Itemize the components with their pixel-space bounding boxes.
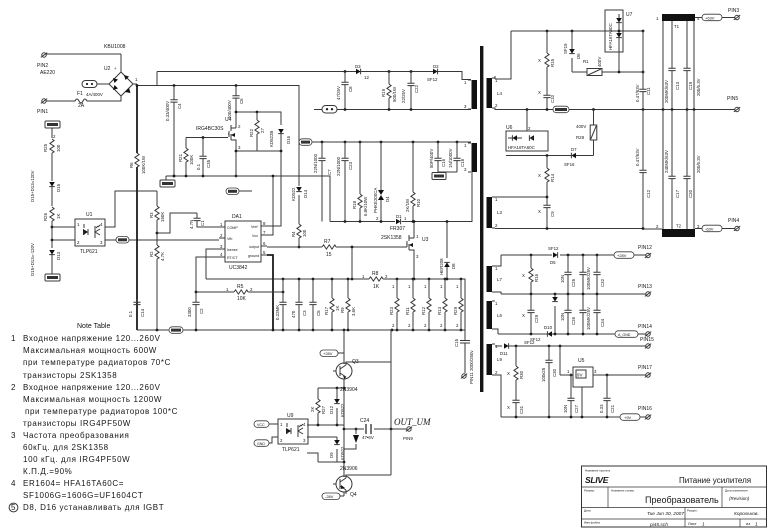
svg-text:HFA16TA60C: HFA16TA60C xyxy=(508,145,535,150)
svg-text:D6: D6 xyxy=(576,53,581,59)
svg-text:R3: R3 xyxy=(149,212,154,218)
svg-text:R4: R4 xyxy=(291,231,296,237)
svg-text:3: 3 xyxy=(11,431,16,440)
svg-text:C30: C30 xyxy=(552,368,557,377)
svg-text:GND: GND xyxy=(257,442,265,446)
wire rail y221 xyxy=(330,172,472,223)
resistor R5 xyxy=(195,284,285,302)
svg-text:1K: 1K xyxy=(373,284,380,290)
svg-text:VCC: VCC xyxy=(257,423,265,427)
svg-text:+: + xyxy=(114,66,117,71)
svg-text:D5: D5 xyxy=(550,260,556,265)
capacitor C13 xyxy=(664,21,680,110)
node VCC oval xyxy=(254,421,278,428)
svg-text:R14: R14 xyxy=(550,173,555,182)
svg-text:R27: R27 xyxy=(321,405,326,414)
wire rail y279 xyxy=(383,278,465,330)
svg-text:U4: U4 xyxy=(225,117,232,123)
capacitor C9 xyxy=(495,196,555,229)
svg-text:X: X xyxy=(538,173,541,178)
svg-text:100: 100 xyxy=(302,229,307,237)
svg-text:+9V: +9V xyxy=(624,415,632,420)
resistor R29 xyxy=(453,279,463,330)
svg-text:4A/400V: 4A/400V xyxy=(86,92,103,97)
svg-text:D8, D16 устанавливать для IGBT: D8, D16 устанавливать для IGBT xyxy=(23,503,164,512)
node PIN2 xyxy=(37,53,55,76)
svg-text:D1: D1 xyxy=(396,214,402,219)
capacitor C16 xyxy=(429,142,446,172)
diode D9 KD522 xyxy=(307,437,345,462)
node A_GND oval xyxy=(615,331,638,338)
svg-text:Название схемы: Название схемы xyxy=(611,489,634,493)
wire rail y72 xyxy=(157,70,471,86)
svg-text:Входное напряжение 120...260V: Входное напряжение 120...260V xyxy=(23,383,161,392)
svg-text:при температуре радиаторов 100: при температуре радиаторов 100*C xyxy=(25,407,178,416)
svg-text:9V: 9V xyxy=(577,373,582,378)
svg-text:R29: R29 xyxy=(453,306,458,315)
capacitor C32 xyxy=(593,255,605,294)
svg-text:C2: C2 xyxy=(199,308,204,314)
svg-text:R13: R13 xyxy=(437,306,442,315)
svg-text:0.1: 0.1 xyxy=(128,310,133,317)
node PIN4 xyxy=(643,218,740,232)
diode D10 SF12 xyxy=(530,325,553,342)
svg-text:TLP621: TLP621 xyxy=(80,249,98,255)
capacitor C2 xyxy=(187,292,204,330)
svg-text:R10: R10 xyxy=(416,198,421,207)
svg-text:PIN11 2000/250v: PIN11 2000/250v xyxy=(469,350,474,384)
svg-text:PIN4: PIN4 xyxy=(728,218,739,224)
resistor R6 xyxy=(129,153,146,174)
svg-text:22/25V: 22/25V xyxy=(401,89,406,103)
svg-text:L4: L4 xyxy=(497,91,502,96)
svg-text:C34: C34 xyxy=(600,318,605,327)
winding L6 xyxy=(487,301,503,329)
transformer core xyxy=(480,46,483,392)
capacitor C5 xyxy=(309,280,321,330)
capacitor C4 xyxy=(165,86,182,177)
svg-text:транзисторы 2SK1358: транзисторы 2SK1358 xyxy=(23,371,117,380)
svg-text:3300: 3300 xyxy=(187,307,192,317)
svg-text:SF1006G=1606G=UF1604CT: SF1006G=1606G=UF1604CT xyxy=(23,491,143,500)
resistor R19 xyxy=(381,72,397,111)
node PIN3 xyxy=(695,8,740,21)
svg-text:2: 2 xyxy=(11,383,16,392)
svg-text:PIN9: PIN9 xyxy=(403,436,413,441)
fuse F1 xyxy=(46,91,121,109)
svg-text:2N3906: 2N3906 xyxy=(340,466,358,472)
svg-text:1K: 1K xyxy=(56,214,61,219)
wire rail y176 xyxy=(166,175,330,222)
svg-text:C35: C35 xyxy=(206,159,211,168)
svg-text:output: output xyxy=(249,245,259,249)
svg-text:KD522: KD522 xyxy=(291,187,296,201)
regulator U5 xyxy=(560,346,597,417)
resistor R7 xyxy=(267,239,352,258)
svg-text:C9: C9 xyxy=(550,211,555,217)
resistor R22 xyxy=(249,120,265,151)
svg-text:C24: C24 xyxy=(360,418,369,424)
svg-text:PHKE200CA: PHKE200CA xyxy=(373,188,378,213)
svg-text:3.6K: 3.6K xyxy=(351,307,356,316)
svg-text:R2: R2 xyxy=(149,251,154,257)
resistor R9 xyxy=(340,280,356,330)
transistor Q4 2N3906 xyxy=(333,466,358,498)
svg-text:100K: 100K xyxy=(189,155,194,165)
svg-text:HER208: HER208 xyxy=(439,258,444,275)
svg-text:22N/1000: 22N/1000 xyxy=(313,153,318,173)
svg-text:X: X xyxy=(507,371,510,376)
svg-text:0.33: 0.33 xyxy=(599,404,604,413)
node B_B oval on rail xyxy=(169,327,183,334)
svg-text:R23: R23 xyxy=(389,306,394,315)
svg-text:R26: R26 xyxy=(43,212,48,221)
svg-text:0.47/63V: 0.47/63V xyxy=(635,148,640,166)
capacitor C34 xyxy=(593,294,605,334)
svg-text:1: 1 xyxy=(755,522,758,528)
svg-text:0.1: 0.1 xyxy=(196,163,201,170)
svg-text:240MK/63V: 240MK/63V xyxy=(664,150,669,173)
node PIN11 xyxy=(461,350,474,384)
svg-text:10N: 10N xyxy=(563,405,568,413)
svg-text:2SK1358: 2SK1358 xyxy=(381,235,402,241)
winding L2 xyxy=(464,143,477,172)
resistor R26 xyxy=(43,207,61,248)
varistor R28 xyxy=(576,110,597,156)
node +28V oval xyxy=(614,252,634,258)
svg-text:TLP621: TLP621 xyxy=(282,447,300,453)
winding L7 xyxy=(487,266,503,292)
svg-text:Раздел.: Раздел. xyxy=(687,509,698,513)
resistor R3 xyxy=(149,191,197,245)
diode D12 KD522 xyxy=(329,388,345,425)
svg-text:ER1604= HFA16TA60C=: ER1604= HFA16TA60C= xyxy=(23,479,124,488)
svg-text:470: 470 xyxy=(291,310,296,318)
winding L4 xyxy=(487,76,503,110)
svg-text:150K: 150K xyxy=(160,212,165,222)
svg-text:R7: R7 xyxy=(324,239,331,245)
svg-text:SF12: SF12 xyxy=(427,77,438,82)
resistor R21 xyxy=(178,148,194,176)
svg-text:C7: C7 xyxy=(327,169,332,175)
svg-text:Q4: Q4 xyxy=(350,492,357,498)
svg-text:Vcc: Vcc xyxy=(252,234,258,238)
svg-text:D4: D4 xyxy=(385,196,390,202)
node PIN13 xyxy=(638,284,652,296)
wire rail y31 xyxy=(511,30,644,33)
diode D7 SF16 xyxy=(506,147,594,167)
svg-text:D15+D13=120V: D15+D13=120V xyxy=(30,170,35,202)
svg-text:X: X xyxy=(507,405,510,410)
svg-text:KD522B: KD522B xyxy=(269,131,274,147)
node PIN17 xyxy=(638,365,652,377)
svg-text:4: 4 xyxy=(11,479,16,488)
svg-text:100K/1W: 100K/1W xyxy=(141,155,146,174)
node GND oval xyxy=(254,437,278,446)
svg-text:Isense: Isense xyxy=(227,248,238,252)
wire rail PIN16 xyxy=(495,375,646,418)
svg-text:Дата изменения: Дата изменения xyxy=(725,489,748,493)
svg-text:Note Table: Note Table xyxy=(77,323,110,330)
svg-text:10N: 10N xyxy=(560,275,565,283)
svg-text:U3: U3 xyxy=(422,237,429,243)
wire pin3 loop xyxy=(206,249,369,280)
wire driver emitter xyxy=(343,379,346,477)
svg-text:6.8K/10W: 6.8K/10W xyxy=(363,196,368,216)
svg-text:22N/1000: 22N/1000 xyxy=(336,156,341,176)
wire gate drive xyxy=(351,246,407,279)
svg-text:PIN14: PIN14 xyxy=(638,324,652,330)
connector SP1 xyxy=(314,106,337,114)
svg-text:X: X xyxy=(538,58,541,63)
svg-text:0.47/63V: 0.47/63V xyxy=(635,84,640,102)
suppressor D4 xyxy=(373,142,390,222)
wire secondary top feed xyxy=(495,31,511,79)
svg-text:C4: C4 xyxy=(177,103,182,109)
svg-text:PIN5: PIN5 xyxy=(727,96,738,102)
svg-text:4.7N: 4.7N xyxy=(189,220,194,229)
choke T1 xyxy=(656,14,700,229)
wire gate rail xyxy=(186,136,228,150)
note table xyxy=(9,323,178,512)
capacitor C30 xyxy=(541,346,557,417)
node PIN12 xyxy=(638,245,652,258)
node -REKT label xyxy=(45,274,60,281)
svg-text:47•6V: 47•6V xyxy=(362,435,374,440)
svg-text:KBU1008: KBU1008 xyxy=(104,44,126,50)
diode D14 KD522 xyxy=(291,142,308,224)
svg-text:D8: D8 xyxy=(451,263,456,269)
resistor R12 xyxy=(421,279,431,330)
svg-text:C32: C32 xyxy=(600,278,605,287)
capacitor C8 xyxy=(336,72,353,111)
svg-text:L3: L3 xyxy=(497,210,502,215)
wire pin4 xyxy=(196,257,219,292)
svg-text:SF19: SF19 xyxy=(563,43,568,54)
capacitor C26 xyxy=(560,294,576,334)
node PIN16 xyxy=(638,406,652,419)
svg-text:100к25: 100к25 xyxy=(541,367,546,382)
svg-text:C6: C6 xyxy=(239,98,244,104)
wire base bottom xyxy=(307,453,344,462)
svg-text:47/25V: 47/25V xyxy=(336,86,341,100)
diode D18 arrow xyxy=(344,428,359,449)
capacitor C35 xyxy=(196,150,211,176)
wire rail y109 xyxy=(495,108,735,111)
svg-text:D10: D10 xyxy=(544,325,553,330)
svg-text:R8: R8 xyxy=(372,271,379,277)
svg-text:2A: 2A xyxy=(78,103,85,109)
capacitor C27 xyxy=(563,375,579,417)
svg-text:X: X xyxy=(538,90,541,95)
capacitor C29 xyxy=(522,294,539,334)
capacitor C22 xyxy=(401,72,419,111)
svg-text:F1: F1 xyxy=(77,91,83,97)
svg-text:D7: D7 xyxy=(571,147,577,152)
svg-text:400V: 400V xyxy=(576,124,586,129)
wire xyxy=(52,227,75,240)
svg-text:C19: C19 xyxy=(688,81,693,90)
svg-text:U5: U5 xyxy=(578,358,585,364)
diode D5 SF12 xyxy=(548,246,559,265)
svg-text:Частота преобразования: Частота преобразования xyxy=(23,431,129,440)
net label D15+D13=120V xyxy=(30,170,35,202)
wire collector loop xyxy=(353,330,391,475)
node VFB oval xyxy=(105,237,219,244)
svg-text:К.П.Д.=90%: К.П.Д.=90% xyxy=(23,467,72,476)
svg-text:D16: D16 xyxy=(286,135,291,144)
wire rail y330 xyxy=(137,329,465,332)
svg-text:C27: C27 xyxy=(574,404,579,413)
svg-text:KD522: KD522 xyxy=(340,446,345,460)
svg-text:FR307: FR307 xyxy=(390,226,405,232)
svg-text:2K/1W: 2K/1W xyxy=(405,198,410,212)
svg-text:+63V: +63V xyxy=(705,15,715,20)
svg-text:T2: T2 xyxy=(676,224,682,229)
svg-text:D2: D2 xyxy=(433,64,439,69)
capacitor C31 xyxy=(507,400,524,417)
diode D3 xyxy=(355,64,369,80)
svg-text:R18: R18 xyxy=(352,200,357,209)
svg-text:-63V: -63V xyxy=(705,226,714,231)
svg-text:-28V: -28V xyxy=(325,494,334,499)
transistor Q3 2N3904 xyxy=(333,330,359,393)
svg-text:100: 100 xyxy=(56,144,61,152)
resistor R18 xyxy=(352,142,368,222)
diode D6 SF19 xyxy=(563,31,581,72)
svg-text:A_GND: A_GND xyxy=(618,333,631,337)
svg-text:D9: D9 xyxy=(329,452,334,458)
resistor R23 xyxy=(389,279,399,330)
optocoupler U9 TLP621 xyxy=(278,413,308,453)
svg-text:U7: U7 xyxy=(626,12,633,18)
svg-text:Дата: Дата xyxy=(584,509,591,513)
svg-text:0.22MK: 0.22MK xyxy=(275,305,280,320)
capacitor C33 xyxy=(579,255,591,294)
resistor R10 xyxy=(405,142,421,222)
capacitor C15 xyxy=(454,330,470,373)
svg-text:R11: R11 xyxy=(405,307,410,315)
node -28V oval xyxy=(322,492,344,500)
svg-text:при температуре радиаторов 70*: при температуре радиаторов 70*C xyxy=(23,358,171,367)
svg-text:C21: C21 xyxy=(610,404,615,413)
svg-text:D12: D12 xyxy=(329,405,334,414)
svg-text:100 кГц. для IRG4PF50W: 100 кГц. для IRG4PF50W xyxy=(23,455,130,464)
varistor R1 xyxy=(572,57,644,76)
capacitor C3 xyxy=(291,280,307,330)
resistor R11 xyxy=(405,279,415,330)
capacitor C12 xyxy=(635,110,651,230)
svg-text:+28V: +28V xyxy=(617,253,627,258)
svg-text:50P/400V: 50P/400V xyxy=(429,149,434,168)
svg-text:C12: C12 xyxy=(646,189,651,198)
svg-text:OUT_UM: OUT_UM xyxy=(394,417,431,427)
svg-text:PIN2: PIN2 xyxy=(37,63,48,69)
svg-text:Размер: Размер xyxy=(584,489,595,493)
diode pair U7 HFA16TA60C xyxy=(605,10,633,73)
svg-text:R12: R12 xyxy=(421,306,426,315)
svg-text:C5: C5 xyxy=(316,310,321,316)
svg-text:C11: C11 xyxy=(646,87,651,95)
choke T2 xyxy=(656,224,700,238)
wire xyxy=(46,53,121,55)
zener D16 xyxy=(269,129,291,151)
svg-text:C10: C10 xyxy=(550,94,555,103)
net label D15+D13=-120V xyxy=(30,243,35,276)
wire pin7 xyxy=(267,175,274,235)
svg-text:SF12: SF12 xyxy=(524,340,535,345)
svg-text:C13: C13 xyxy=(675,81,680,90)
winding L9 xyxy=(487,344,503,375)
svg-text:DA1: DA1 xyxy=(232,214,242,220)
node +REKT label xyxy=(45,121,60,138)
svg-text:X: X xyxy=(522,313,525,318)
svg-text:R19: R19 xyxy=(381,88,386,97)
svg-text:+28V: +28V xyxy=(323,351,333,356)
svg-text:R22: R22 xyxy=(249,128,254,137)
svg-text:RT/CT: RT/CT xyxy=(227,256,238,260)
svg-text:Питание усилителя: Питание усилителя xyxy=(679,476,751,485)
svg-text:4.7K: 4.7K xyxy=(160,252,165,261)
svg-text:C29: C29 xyxy=(534,314,539,323)
wire rail PIN13 xyxy=(495,292,646,295)
node PIN5 xyxy=(727,96,740,112)
svg-text:C18: C18 xyxy=(460,158,465,167)
svg-text:C3: C3 xyxy=(302,310,307,316)
resistor R13 xyxy=(437,279,447,330)
capacitor C20 xyxy=(683,110,701,230)
resistor R30 xyxy=(507,346,524,400)
svg-text:R30: R30 xyxy=(519,370,524,379)
svg-text:D11: D11 xyxy=(500,351,508,356)
svg-text:X: X xyxy=(522,273,525,278)
svg-text:C20: C20 xyxy=(688,189,693,198)
svg-text:C25: C25 xyxy=(571,278,576,287)
svg-text:L9: L9 xyxy=(497,357,502,362)
node PIN15 xyxy=(640,337,654,348)
resistor R16 xyxy=(522,255,539,294)
node COM oval xyxy=(553,106,569,113)
wire secondary com xyxy=(495,227,644,230)
svg-text:U1: U1 xyxy=(86,212,93,218)
wire base top xyxy=(318,387,344,390)
svg-text:Корольков.: Корольков. xyxy=(734,511,759,517)
diode D8 HER208 xyxy=(439,220,456,279)
svg-text:10N: 10N xyxy=(560,313,565,321)
svg-text:200/6.3V: 200/6.3V xyxy=(696,78,701,96)
node B_B oval xyxy=(82,81,109,88)
svg-text:27: 27 xyxy=(260,128,265,133)
svg-text:10K: 10K xyxy=(237,296,247,302)
wire rail PIN14 xyxy=(495,329,646,335)
node VCC oval xyxy=(226,188,252,195)
svg-text:R17: R17 xyxy=(324,306,329,315)
wire xyxy=(105,191,157,227)
svg-text:Преобразователь: Преобразователь xyxy=(645,495,719,505)
svg-text:T1: T1 xyxy=(674,24,680,29)
svg-text:D15: D15 xyxy=(56,183,61,192)
svg-text:60кГц. для 2SK1358: 60кГц. для 2SK1358 xyxy=(23,443,109,452)
svg-text:D14: D14 xyxy=(303,189,308,198)
svg-text:R21: R21 xyxy=(178,153,183,162)
svg-text:Имя файла: Имя файла xyxy=(584,521,600,525)
svg-text:500/1W: 500/1W xyxy=(392,86,397,102)
title block xyxy=(582,466,767,528)
winding L3 xyxy=(487,197,503,228)
node OUT_UM PIN9 xyxy=(394,417,431,441)
wire source rail xyxy=(173,147,281,177)
capacitor C36 xyxy=(275,279,287,330)
